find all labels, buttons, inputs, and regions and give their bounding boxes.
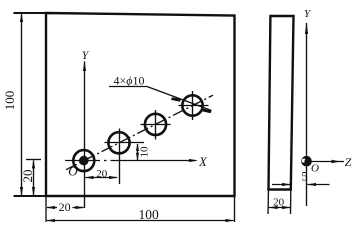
svg-text:O: O bbox=[68, 164, 78, 179]
svg-text:20: 20 bbox=[273, 197, 285, 209]
svg-text:100: 100 bbox=[2, 91, 17, 111]
svg-text:X: X bbox=[198, 155, 208, 169]
svg-text:10: 10 bbox=[139, 146, 151, 158]
svg-text:20: 20 bbox=[20, 170, 35, 183]
svg-text:20: 20 bbox=[96, 168, 108, 180]
svg-text:100: 100 bbox=[138, 207, 159, 222]
svg-text:5: 5 bbox=[301, 170, 307, 184]
svg-text:4×ϕ10: 4×ϕ10 bbox=[114, 74, 145, 88]
svg-text:20: 20 bbox=[59, 200, 71, 214]
svg-text:O: O bbox=[311, 163, 319, 175]
svg-text:Z: Z bbox=[345, 155, 352, 169]
